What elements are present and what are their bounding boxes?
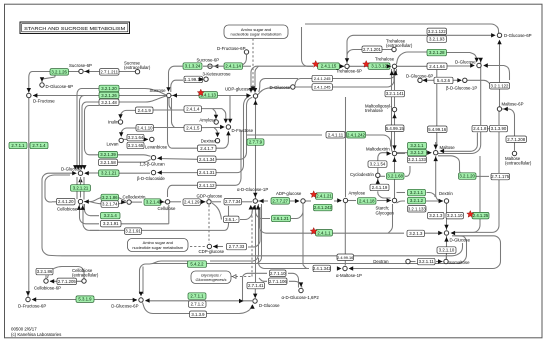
wire 2.4.1.20 box to loop <box>52 201 57 203</box>
svg-text:α-D-Glucose-1P: α-D-Glucose-1P <box>237 187 268 192</box>
svg-text:Cellodextrin: Cellodextrin <box>123 195 147 200</box>
wire 2.4.1.9 to 2.4.1.4 row <box>153 109 184 111</box>
enzyme 2.7.7.27 <box>271 198 290 205</box>
node GDP-glucose <box>207 200 211 204</box>
svg-text:3.1.3.90: 3.1.3.90 <box>491 126 507 131</box>
svg-text:nucleotide sugar metabolism: nucleotide sugar metabolism <box>231 32 283 37</box>
enzyme 2.4.1.14 <box>224 63 243 70</box>
svg-text:(extracellular): (extracellular) <box>386 43 413 48</box>
enzyme 2.7.1.10 <box>270 270 287 277</box>
open arrowhead into glycolysis link <box>233 275 237 279</box>
wire 2.4.1.7 up to D-Fructose center <box>216 134 228 148</box>
wire bus line 2 down to D-glucose hub <box>80 96 100 169</box>
wire sucrose split down to D-Fructose b <box>229 96 231 123</box>
wire 3.2.1.54 up to maltodextrin <box>378 153 389 161</box>
arrowhead into cyclodextrin <box>376 179 380 184</box>
node Starch Glycogen <box>392 198 396 202</box>
enzyme 3.2.1.91 upper <box>101 220 122 227</box>
enzyme 2.4.1.34 <box>198 156 217 163</box>
enzyme 2.7.1.4 fructokinase <box>30 142 48 149</box>
wire parallel vertical trehalose-maltodextrin <box>391 69 393 147</box>
wire 3.2.1.91 upper line right <box>121 223 169 225</box>
arrowhead into left hub b <box>76 165 80 170</box>
wire maltodextrin down to starch node <box>394 157 396 199</box>
arrowhead into CDP-glucose <box>213 244 218 248</box>
wire 2.4.1.31 to UDP-glucose vertical <box>216 97 249 173</box>
svg-text:3.1.3.24: 3.1.3.24 <box>185 64 201 69</box>
wire maltose line through 3.2.1.20 <box>438 156 476 177</box>
wire dextran to 3.2.1.11 <box>410 261 416 263</box>
wire 3.2.1.86 to cellodextrin <box>119 198 127 201</box>
enzyme 2.7.1.208 <box>506 136 527 143</box>
svg-text:Sucrose-6P: Sucrose-6P <box>69 63 92 68</box>
pathway link Amino sugar and nucleotide sugar metabolism (bottom) <box>128 239 189 252</box>
arrowhead into UDP-glucose <box>246 93 251 97</box>
wire 2.7.1.10 to glucose-1,6P2 <box>288 273 299 287</box>
svg-text:3.2.1.10: 3.2.1.10 <box>447 213 463 218</box>
wire 3.2.1.21 to beta-D-glucoside <box>119 172 150 174</box>
svg-text:(extracellular): (extracellular) <box>124 65 151 70</box>
svg-text:3.2.1.3: 3.2.1.3 <box>409 231 423 236</box>
node Levanbiose <box>150 137 154 141</box>
wire big loop top to D-glucose-6P <box>305 24 499 33</box>
node Amylose (center) <box>343 198 347 202</box>
arrowhead into D-glucose right d <box>483 63 488 67</box>
arrowhead into D-Fructose left <box>33 93 38 97</box>
wire ADP-glucose to 2.4.1.21 <box>305 200 311 202</box>
wire stub down <box>504 66 510 81</box>
arrowhead into left hub from right <box>84 171 89 175</box>
svg-text:Cellobiose-6P: Cellobiose-6P <box>34 285 61 290</box>
wire GDP-glucose dashed to CDP-glucose <box>208 205 210 243</box>
wire UDP-glucose up to trehalose-6P synthesis 2.4.1.15 <box>251 66 313 92</box>
wire hub to cellobiose vertical c <box>83 177 85 200</box>
arrowhead into cellulose <box>160 200 165 204</box>
arrowhead into D-glucose hub from left <box>438 231 443 235</box>
node Trehalose (extracellular) <box>392 47 396 51</box>
svg-text:Sucrose: Sucrose <box>150 88 167 93</box>
wire UDP-glucose to D-Glucose top <box>258 88 291 95</box>
arrowhead into D-glucose-6P small <box>423 78 428 82</box>
arrowhead into D-glucose-6P bottom from above <box>139 292 143 297</box>
wire D-glucose hub right stub <box>85 172 95 174</box>
svg-text:3.2.1.133: 3.2.1.133 <box>408 157 427 162</box>
red star marker on 2.4.1.25 <box>467 211 474 218</box>
wire 2.4.1.19 to starch <box>378 191 391 198</box>
enzyme 3.2.1.4 cellulase lower <box>144 199 161 206</box>
node D-Fructose (left) <box>27 93 31 97</box>
wire CDP-glucose to 2.7.7.33 <box>213 246 223 248</box>
svg-text:CDP-glucose: CDP-glucose <box>199 249 225 254</box>
wire GDP-glucose to 2.7.7.34 <box>212 201 221 203</box>
arrowhead into left hub d <box>82 165 86 170</box>
enzyme 3.2.1.133 stack A <box>408 156 427 163</box>
svg-text:3.2.1.4: 3.2.1.4 <box>104 213 118 218</box>
wire bus line 3 down to D-glucose hub <box>82 102 99 168</box>
wire D-glucose-6P to D-glucose via 2.7.1.1/2 <box>146 300 253 302</box>
svg-text:Sucrose-6P: Sucrose-6P <box>197 58 220 63</box>
node Maltose (extracellular) <box>512 151 516 155</box>
pathway link Amino sugar and nucleotide sugar metabolism (top) <box>224 25 288 39</box>
arrowhead into dextrin <box>439 199 444 203</box>
red star marker on 2.4.1.13 <box>197 89 204 96</box>
arrowhead into D-fructose center a <box>224 119 228 124</box>
wire UDP-glucose up-branch to 2.4.1.245 upper line <box>259 79 298 93</box>
enzyme 3.2.1.64 <box>127 134 144 141</box>
enzyme 3.2.1.28 trehalase <box>427 49 447 56</box>
svg-text:3.6.1.-: 3.6.1.- <box>225 217 238 222</box>
enzyme 3.6.1.- <box>224 216 240 223</box>
wire G1P down parallel <box>257 204 262 264</box>
svg-text:3.2.1.54: 3.2.1.54 <box>370 162 386 167</box>
enzyme 3.2.1.122 top <box>427 28 447 34</box>
arrowhead down into trehalose-6P <box>345 58 349 63</box>
wire maltose-6P to maltose(extracellular) via 2.7.1.208 <box>502 109 515 151</box>
enzyme 2.4.1.7 sucrose phosphorylase <box>198 145 217 152</box>
enzyme 3.2.1.11 dextranase <box>418 258 436 265</box>
svg-text:3-Ketosucrose: 3-Ketosucrose <box>203 72 232 77</box>
node D-Glucose-6P (top right) <box>497 33 501 37</box>
svg-text:3.2.1.91: 3.2.1.91 <box>125 229 141 234</box>
svg-text:5.4.99.15: 5.4.99.15 <box>386 126 405 131</box>
enzyme 2.4.1.15 trehalose-6P synthase <box>318 63 340 70</box>
node Dextran (bottom) <box>406 259 410 263</box>
enzyme 5.4.2.2 phosphoglucomutase <box>188 261 207 268</box>
wire into D-fructose-6P stub <box>27 295 29 298</box>
arrowhead into D-glucose hub from below <box>444 237 448 242</box>
svg-text:D-Fructose: D-Fructose <box>232 128 254 133</box>
svg-text:3.2.1.86: 3.2.1.86 <box>37 269 53 274</box>
wire trehalose to 2.4.1.64 <box>397 65 427 67</box>
wire 2.4.1.10 to 2.4.1.5 row <box>154 127 185 129</box>
svg-text:2.7.7.9: 2.7.7.9 <box>249 140 263 145</box>
node Dextran (center) <box>215 139 219 143</box>
wire 2.4.1.10 to Levan <box>121 128 136 136</box>
wire join maltodextrin <box>392 147 393 152</box>
wire 3.2.1.10 down to isomaltose <box>445 255 447 260</box>
arrowhead into Sucrose-6P <box>85 69 90 73</box>
node beta-D-Glucose-1P <box>463 78 467 82</box>
wire sucrose(extracellular) to sucrose-6P via 2.7.1.211 <box>84 71 138 73</box>
wire 2.4.1.21 to amylose node <box>334 200 341 202</box>
svg-text:3.2.1.65: 3.2.1.65 <box>128 143 144 148</box>
enzyme 3.2.1.26 stack left <box>99 92 119 99</box>
enzyme 2.4.1.8 <box>472 125 488 132</box>
svg-text:2.4.1.20: 2.4.1.20 <box>58 199 74 204</box>
wire sucrose branch to dextransucrase row <box>172 98 175 128</box>
wire 2.4.1.4 down to D-Fructose <box>222 109 226 122</box>
enzyme 3.2.1.3 pair <box>428 212 445 219</box>
wire sucrose-6P to D-Fructose <box>29 72 79 93</box>
enzyme 3.2.1.26 (invertase, sucrose-6P line) <box>50 69 69 76</box>
svg-text:D-Glucose-6P: D-Glucose-6P <box>406 73 433 78</box>
enzyme 3.2.1.20 stack left <box>99 85 119 92</box>
enzyme 2.4.1.21 starch synthase <box>316 193 333 200</box>
svg-text:Trehalose: Trehalose <box>375 56 395 61</box>
enzyme 2.7.1.211 <box>100 69 120 76</box>
wire line into 2.4.1.11 <box>247 134 323 136</box>
wire 2.7.1.41 down to D-glucose <box>254 289 256 297</box>
enzyme 2.7.1.41 <box>247 282 265 289</box>
node Levan <box>119 138 123 142</box>
wire dextrin down to D-glucose via 3.2.1.3/10 <box>446 203 448 230</box>
arrowhead into D-Fructose <box>27 88 31 93</box>
enzyme 2.7.1.2 glucokinase <box>189 301 207 308</box>
svg-text:5.4.2.6: 5.4.2.6 <box>437 78 451 83</box>
node D-Glucose-6P (top left) <box>40 83 44 87</box>
svg-text:3.2.1.68: 3.2.1.68 <box>387 174 403 179</box>
arrowhead into cellobiose from right <box>84 199 89 203</box>
arrowhead into cellodextrin <box>121 200 126 204</box>
enzyme 3.2.1.74 <box>101 201 119 208</box>
svg-text:Maltose: Maltose <box>440 145 456 150</box>
arrowhead into maltose-1P <box>337 266 342 270</box>
enzyme 3.2.1.48 stack left <box>99 99 119 106</box>
wire cellobiose down branch b <box>85 204 100 216</box>
wire into maltose from above <box>435 142 437 150</box>
enzyme 2.4.1.242 top <box>347 132 366 139</box>
enzyme 2.4.1.1 glycogen phosphorylase <box>316 230 333 237</box>
wire cellulose to 2.4.1.29 <box>170 201 181 203</box>
wire 5.4.2.2 left to D-glucose-6P a <box>140 261 189 294</box>
enzyme 3.2.1.93 <box>427 36 447 43</box>
arrowhead into G1P from right <box>259 199 264 203</box>
node Cyclodextrin <box>376 173 380 177</box>
svg-text:Cellobiose: Cellobiose <box>57 206 78 211</box>
enzyme 2.4.1.64 <box>427 63 447 70</box>
enzyme 2.7.1.205 <box>57 278 77 285</box>
arrowhead into D-glucose hub from right <box>451 231 456 235</box>
arrowhead up into cellobiose b <box>81 205 85 210</box>
wire cellobiose(ext) up loop to 3.2.1.86 <box>48 267 85 280</box>
node CDP-glucose <box>207 244 211 248</box>
wire D-Glucose to 2.4.1.245 lower <box>295 86 312 88</box>
enzyme 3.2.1.68 <box>387 173 405 180</box>
enzyme 3.1.3.24 <box>183 63 202 70</box>
arrowhead into D-glucose-6P bottom from right <box>145 298 150 302</box>
enzyme 3.2.1.21 lower <box>71 185 91 192</box>
svg-text:3.2.1.28: 3.2.1.28 <box>429 50 445 55</box>
enzyme 3.2.1.2 stack B <box>408 197 426 204</box>
wire starch to stack B <box>397 201 406 203</box>
wire D-glucose down to isomaltose via 3.2.1.10 <box>446 236 448 259</box>
wire 2.4.1.9 to Inulin <box>121 110 136 118</box>
node D-Glucose (bottom) <box>253 299 257 303</box>
svg-text:Trehalose-6P: Trehalose-6P <box>336 68 362 73</box>
wire cellobiose-6P to 2.7.1.205 <box>50 280 82 282</box>
arrowhead into D-fructose-6P from above <box>26 291 30 296</box>
enzyme 1.1.99.13 <box>184 76 203 83</box>
svg-text:3.2.1.64: 3.2.1.64 <box>128 135 144 140</box>
svg-text:2.7.7.33: 2.7.7.33 <box>229 244 245 249</box>
svg-text:D-Fructose-6P: D-Fructose-6P <box>217 46 246 51</box>
node D-Fructose-6P (top) <box>244 50 248 54</box>
enzyme 2.4.1.19 CGTase <box>370 184 389 191</box>
arrowhead into isomaltose <box>438 259 443 263</box>
svg-text:Cellulose: Cellulose <box>158 206 176 211</box>
node D-Glucose (left hub) <box>78 171 82 175</box>
svg-text:UDP-glucose: UDP-glucose <box>225 87 251 92</box>
node Inulin <box>118 120 122 124</box>
svg-text:2.4.1.10: 2.4.1.10 <box>137 125 153 130</box>
wire maltose up to D-glucose right <box>438 59 481 154</box>
arrowhead into inulin <box>118 114 122 119</box>
svg-text:1,3-β-Glucan: 1,3-β-Glucan <box>140 161 166 166</box>
svg-text:5.4.99.16: 5.4.99.16 <box>428 127 447 132</box>
wire 3.1.3.9 return line <box>143 303 253 314</box>
svg-text:2.4.1.7: 2.4.1.7 <box>200 146 214 151</box>
wire stack B to dextrin <box>426 200 443 202</box>
node D-Glucose-6P (bottom) <box>139 298 143 302</box>
arrowhead into D-glucose-6P bottom from left <box>133 298 138 302</box>
svg-text:3.2.1.122: 3.2.1.122 <box>428 29 447 34</box>
svg-text:D-Glucose: D-Glucose <box>270 85 291 90</box>
node D-Glucose-6P (small) <box>418 78 422 82</box>
red star marker on 2.4.1.1 <box>310 228 317 235</box>
arrowhead into D-fructose center d <box>226 131 230 136</box>
arrowhead into levan <box>119 132 123 137</box>
wire 2.4.1.8 to 3.1.3.90 <box>488 128 490 130</box>
svg-text:3.2.1.4: 3.2.1.4 <box>146 200 160 205</box>
enzyme 5.3.1.9 GPI <box>76 296 94 303</box>
arrowhead into D-glucose bottom <box>239 299 244 303</box>
arrowhead into maltose <box>427 151 432 155</box>
wire D-glucose to 2.7.1.10 <box>243 273 268 301</box>
enzyme 3.2.1.122 right <box>490 83 510 90</box>
node Sucrose-6P <box>79 69 83 73</box>
enzyme 3.2.1.1 stack B <box>408 189 426 196</box>
arrowhead into left hub a <box>73 165 77 170</box>
wire D-Fructose down to D-Fructose-6P (left long vertical) <box>28 97 30 295</box>
wire 2.4.1.5 right to D-Fructose <box>202 126 224 128</box>
enzyme 3.2.1.10 isomaltose <box>437 247 456 254</box>
svg-text:β-D-Glucose-1P: β-D-Glucose-1P <box>446 86 477 91</box>
enzyme 2.4.1.12 <box>198 182 217 189</box>
arrowhead into trehalose <box>387 64 392 68</box>
arrowhead into levanbiose <box>144 137 149 141</box>
arrowhead up into D-glucose bottom from 3.1.3.9 <box>250 304 254 309</box>
enzyme 2.4.1.242 center <box>314 204 333 211</box>
svg-text:3.2.1.58: 3.2.1.58 <box>100 160 116 165</box>
node Maltose-6P <box>497 107 501 111</box>
wire T down to Dextran <box>214 128 218 137</box>
arrowhead up into trehalose a <box>390 71 394 76</box>
node Sucrose (extracellular) <box>135 70 139 74</box>
arrowhead up into G1P b <box>252 205 256 210</box>
node Maltodextrin <box>392 151 396 155</box>
wire beta-D-glucoside line <box>158 172 198 174</box>
enzyme 2.7.7.34 <box>224 198 242 205</box>
svg-text:2.7.7.27: 2.7.7.27 <box>272 198 288 203</box>
wire cellobiose to 3.2.1.74 <box>90 202 101 204</box>
wire G1P down to 5.4.2.2 <box>210 204 259 261</box>
svg-text:3.2.1.93: 3.2.1.93 <box>429 37 445 42</box>
node D-Glucose (top center) <box>291 85 295 89</box>
enzyme 2.4.1.11 <box>326 132 345 139</box>
enzyme 2.7.1.1 bottom <box>188 293 206 300</box>
node Sucrose (center) <box>167 93 171 97</box>
wire 2.4.1.64 to D-glucose right <box>447 65 472 67</box>
svg-text:3.2.1.26: 3.2.1.26 <box>101 93 117 98</box>
wire 2.4.1.18 to starch node <box>377 200 391 202</box>
wire amylose down through 2.4.99.16 to alpha-maltose-1P <box>344 203 346 265</box>
arrowhead up into G1P a <box>249 205 253 210</box>
arrowhead into D-glucose-6P right <box>491 33 496 37</box>
enzyme 3.2.1.133 stack B <box>408 206 427 213</box>
wire D-Glucose up to 2.4.1.245 upper <box>295 79 312 86</box>
svg-text:Maltose-6P: Maltose-6P <box>502 102 524 107</box>
enzyme 3.1.3.12 trehalose-6-phosphatase <box>368 63 390 70</box>
wire 3.2.1.20 to right vertical <box>476 175 489 177</box>
arrowhead into sucrose from right <box>172 93 177 97</box>
arrowhead into maltose-6P <box>503 107 508 111</box>
wire to dextrin <box>436 196 443 201</box>
arrowhead into amylose node <box>337 198 342 202</box>
svg-text:2.7.1.41: 2.7.1.41 <box>248 283 264 288</box>
node D-Glucose (right) <box>477 63 481 67</box>
node D-Fructose (center) <box>226 125 230 129</box>
svg-text:3.2.1.86: 3.2.1.86 <box>102 195 118 200</box>
svg-text:α-D-Glucose-1,6P2: α-D-Glucose-1,6P2 <box>282 295 320 300</box>
svg-text:2.7.1.1: 2.7.1.1 <box>11 143 25 148</box>
wire alpha-D-glucose-1P to 2.7.7.27 <box>258 200 269 202</box>
arrowhead into D-Glucose-6P top left <box>40 77 44 82</box>
svg-text:Dextrin: Dextrin <box>439 191 453 196</box>
node Dextrin <box>444 199 448 203</box>
svg-text:3.2.1.39: 3.2.1.39 <box>100 152 116 157</box>
enzyme 3.2.1.58 <box>99 159 118 166</box>
wire 3.2.1.20 line joining sucrose <box>119 89 166 96</box>
wire cellobiose-6P up to 3.2.1.86 <box>45 275 47 279</box>
svg-text:D-Glucose: D-Glucose <box>259 303 280 308</box>
svg-text:Levan: Levan <box>107 142 120 147</box>
wire 3.2.1.68 up <box>405 166 410 176</box>
enzyme 3.2.1.86 bottom <box>36 268 53 275</box>
enzyme 3.2.1.54 <box>368 161 387 168</box>
svg-text:2.7.1.2: 2.7.1.2 <box>191 302 205 307</box>
wire 3.2.1.39 to 1,3-beta-glucan <box>118 155 151 157</box>
wire 3.2.1.48 line joining sucrose <box>119 96 166 102</box>
wire hub to cellobiose vertical b <box>80 177 82 198</box>
svg-text:Glycogen: Glycogen <box>376 210 395 215</box>
svg-text:Amylose: Amylose <box>199 118 216 123</box>
enzyme 2.4.1.9 <box>136 107 154 114</box>
arrowhead into sucrose-6P second <box>214 64 219 68</box>
svg-text:2.4.1.1: 2.4.1.1 <box>317 230 331 235</box>
node Trehalose <box>392 64 396 68</box>
wire 3.2.1.54 to cyclodextrin <box>377 168 379 178</box>
wire vertical through 2.4.1.11/242 to amylose node <box>345 97 347 197</box>
svg-text:nucleotide sugar metabolism: nucleotide sugar metabolism <box>132 245 184 250</box>
enzyme 3.2.1.65 <box>127 142 144 149</box>
wire 2.4.1.11/242 to maltodextrin <box>366 135 391 147</box>
svg-text:2.4.1.18: 2.4.1.18 <box>359 199 375 204</box>
svg-text:3.2.1.1: 3.2.1.1 <box>410 143 424 148</box>
svg-text:Amylose: Amylose <box>349 190 366 195</box>
enzyme 3.2.1.4 cellulase upper <box>101 212 121 219</box>
wire 2.7.7.33 up to G1P <box>248 207 260 247</box>
enzyme 2.4.1.245 lower <box>312 84 333 91</box>
wire sucrose branch to amylosucrase row <box>169 98 172 110</box>
wire 2.7.1.106 left join <box>259 278 267 281</box>
node Maltose <box>434 151 438 155</box>
svg-text:Isomaltose: Isomaltose <box>449 260 471 265</box>
svg-text:Dextran: Dextran <box>373 259 389 264</box>
wire hub to 3.2.1.21 lower <box>80 177 82 184</box>
red star marker on 3.1.3.12 <box>363 61 370 68</box>
svg-text:trehalose: trehalose <box>365 108 383 113</box>
svg-text:Cyclodextrin: Cyclodextrin <box>350 172 374 177</box>
